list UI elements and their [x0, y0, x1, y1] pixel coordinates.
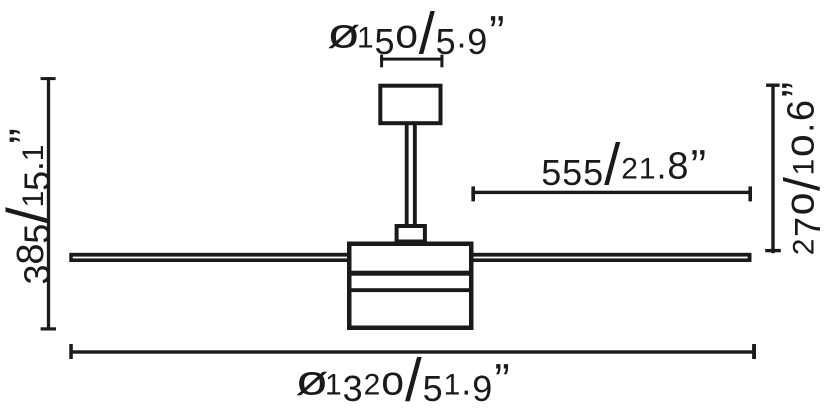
ceiling canopy — [380, 86, 440, 124]
dimension line ø150 (top) — [380, 55, 443, 68]
downrod right line — [413, 123, 417, 227]
svg-text:385/15.1’’: 385/15.1’’ — [0, 129, 62, 285]
svg-text:15o/5.9’’: 15o/5.9’’ — [357, 2, 504, 67]
blade right — [470, 253, 752, 262]
motor housing body — [349, 244, 471, 328]
blade left — [69, 253, 351, 262]
svg-text:555/21.8’’: 555/21.8’’ — [541, 133, 706, 198]
downrod left line — [405, 123, 409, 227]
svg-text:27o/1o.6’’: 27o/1o.6’’ — [772, 82, 830, 255]
svg-text:ø: ø — [327, 10, 360, 57]
rod-to-body coupling — [397, 226, 425, 242]
motor body thin band line — [351, 288, 472, 292]
dimension line ø1320 (bottom) — [69, 344, 756, 359]
motor body thick band line — [351, 271, 472, 276]
dimension line 555 (right middle) — [471, 186, 752, 201]
svg-text:132o/51.9’’: 132o/51.9’’ — [325, 347, 509, 414]
dimension line 385 (left) — [41, 77, 56, 330]
dimension line 270 (far right) — [765, 84, 781, 254]
svg-text:ø: ø — [295, 357, 328, 404]
